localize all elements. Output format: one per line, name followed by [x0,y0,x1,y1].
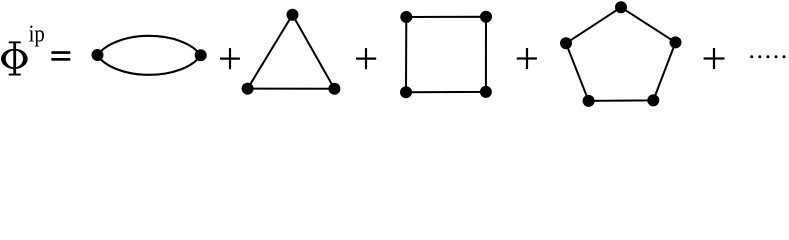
ring left vertex dot [92,49,104,61]
ellipsis dot 5 [783,55,786,58]
square top-left vertex dot [400,11,412,23]
pentagon lower-left vertex dot [583,95,595,107]
square diagram (4th order) [406,17,486,93]
triangle apex vertex dot [287,9,299,21]
square top-right vertex dot [480,11,492,23]
triangle bottom-left vertex dot [242,83,254,95]
pentagon upper-left vertex dot [560,37,572,49]
square bottom-right vertex dot [480,86,492,98]
plus sign 2 [356,48,376,69]
pentagon lower-right vertex dot [647,94,659,106]
ellipsis dot 1 [750,55,753,58]
pentagon diagram (5th order) [566,7,676,101]
plus sign 3 [517,48,537,69]
triangle bottom-right vertex dot [328,83,340,95]
superscript ip [29,20,45,47]
ellipsis dot 2 [758,55,761,58]
triangle diagram (3rd order) [248,15,335,89]
square bottom-left vertex dot [400,86,412,98]
plus sign 1 [220,48,240,69]
plus sign 4 [704,48,725,69]
pentagon upper-right vertex dot [670,36,682,48]
svg-text:ip: ip [29,20,45,47]
pentagon top vertex dot [615,1,627,13]
ellipsis dot 4 [775,55,778,58]
ring right vertex dot [195,49,207,61]
equals sign [51,51,70,61]
ring diagram (2-point bubble) [98,36,201,75]
label Phi (functional symbol) [1,41,28,75]
ellipsis dot 3 [766,55,769,58]
